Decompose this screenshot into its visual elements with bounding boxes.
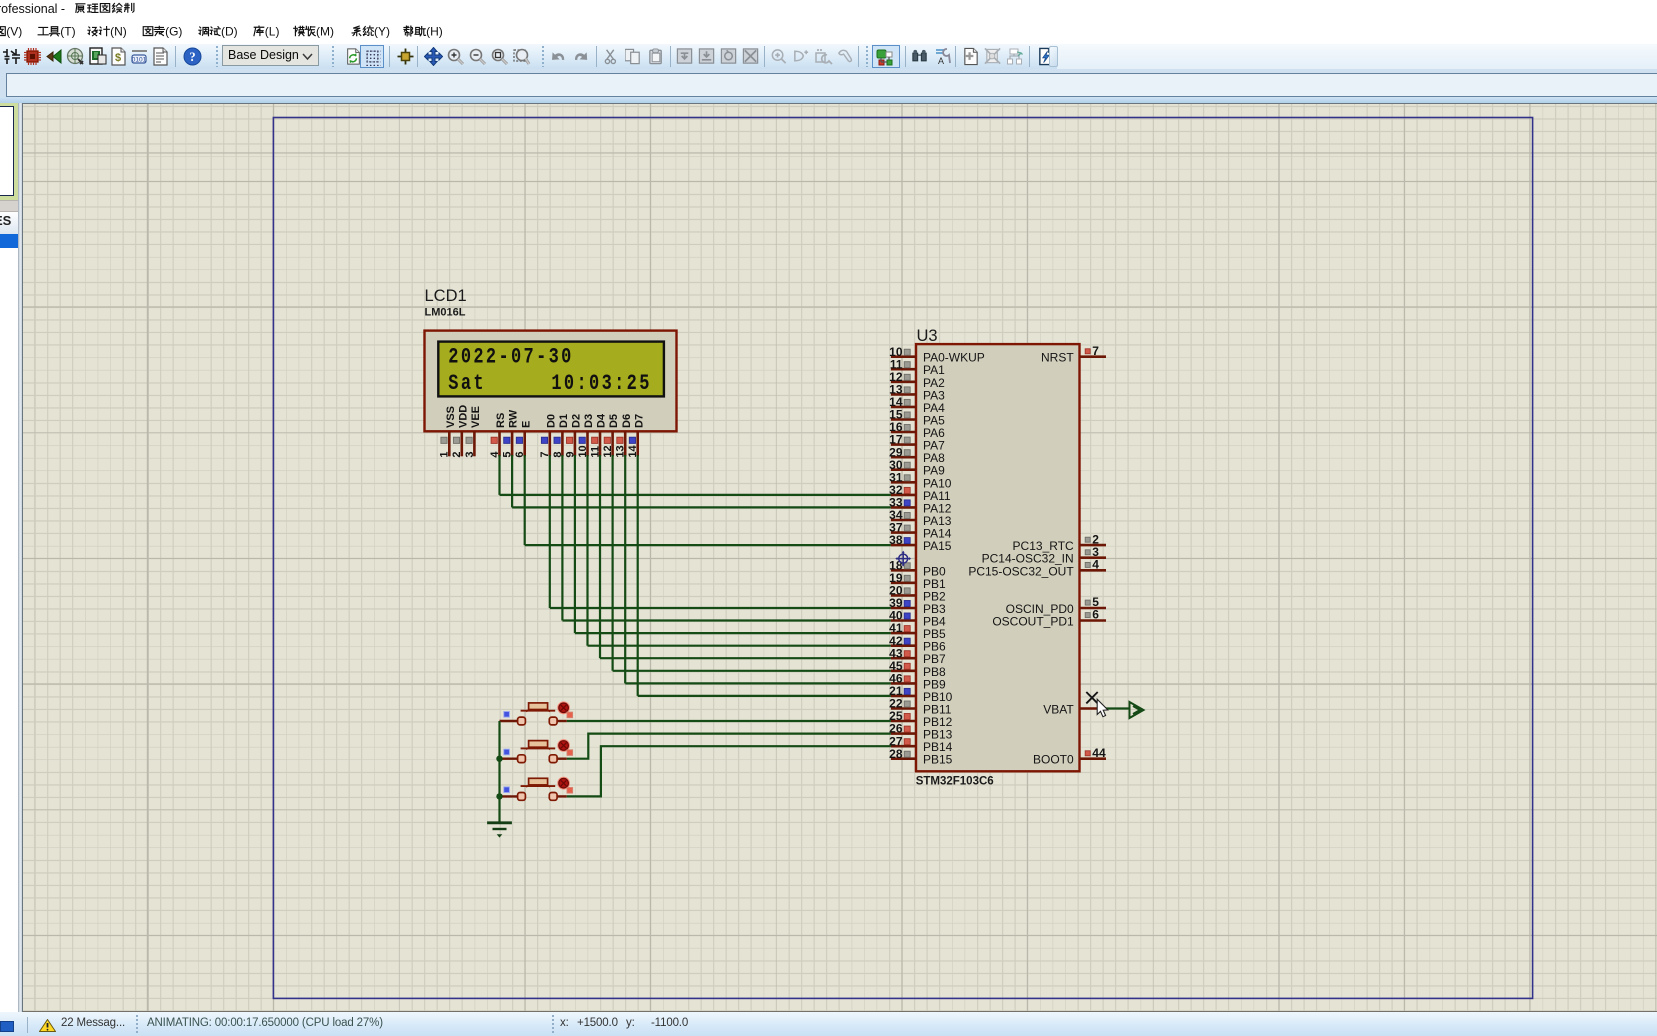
svg-text:(D): (D)	[221, 24, 238, 38]
svg-text:A: A	[938, 56, 944, 66]
svg-text:(T): (T)	[60, 24, 75, 38]
svg-text:(V): (V)	[6, 24, 22, 38]
svg-text:(Y): (Y)	[374, 24, 390, 38]
svg-text:rofessional -: rofessional -	[0, 2, 65, 16]
svg-text:(M): (M)	[316, 24, 334, 38]
svg-text:(G): (G)	[165, 24, 182, 38]
svg-text:$: $	[115, 52, 121, 64]
svg-text:0101: 0101	[132, 57, 147, 64]
svg-text:?: ?	[189, 50, 195, 64]
svg-text:(L): (L)	[265, 24, 280, 38]
svg-text:(H): (H)	[426, 24, 443, 38]
svg-text:(N): (N)	[110, 24, 127, 38]
